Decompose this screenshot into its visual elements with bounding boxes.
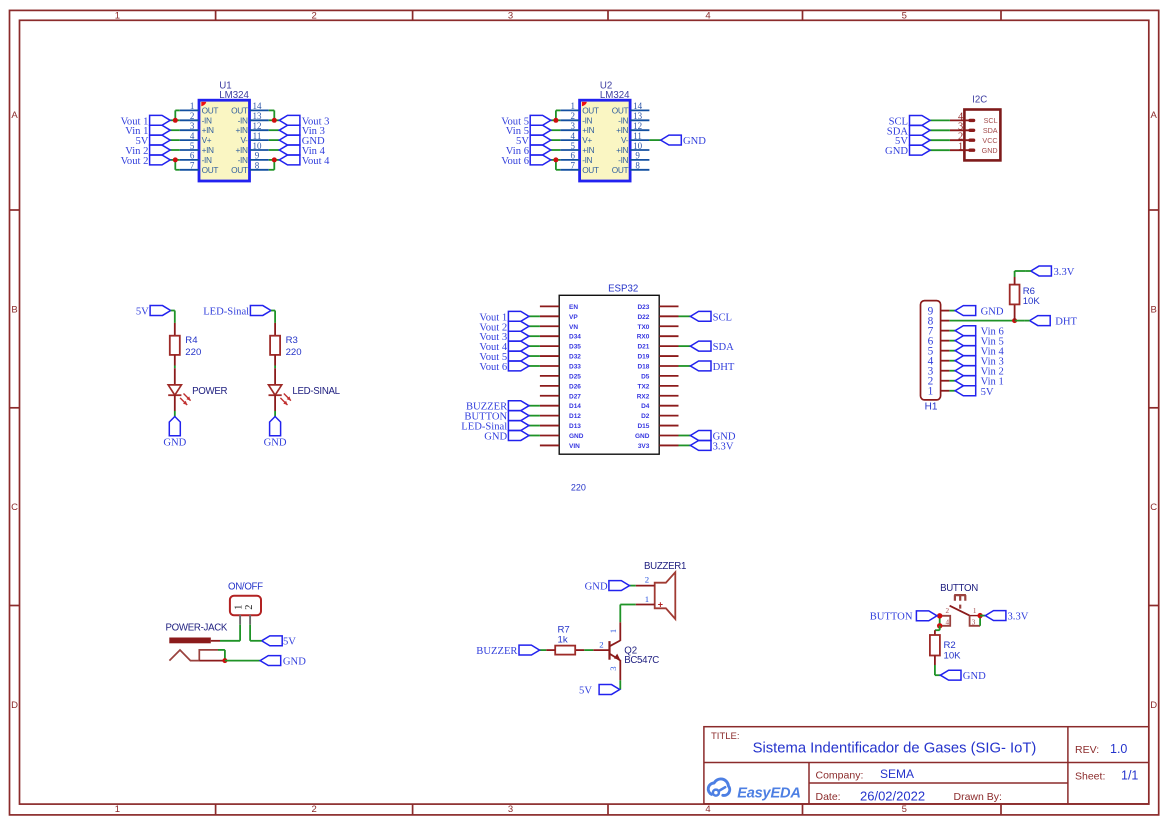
svg-text:4: 4 [705,804,710,815]
svg-text:SCL: SCL [984,116,998,125]
svg-text:RX2: RX2 [637,393,650,400]
svg-text:SCL: SCL [713,312,732,323]
svg-text:7: 7 [570,161,575,171]
svg-text:ESP32: ESP32 [608,283,638,294]
svg-text:14: 14 [253,101,263,111]
svg-text:GND: GND [885,146,908,157]
svg-text:-IN: -IN [202,115,212,125]
svg-text:10: 10 [253,141,263,151]
svg-text:V+: V+ [202,135,212,145]
svg-text:R4: R4 [185,335,198,346]
svg-text:1/1: 1/1 [1121,769,1138,783]
svg-text:LED-SINAL: LED-SINAL [292,386,340,397]
svg-text:2: 2 [599,640,603,650]
svg-text:-IN: -IN [202,155,212,165]
svg-text:TITLE:: TITLE: [711,731,740,742]
svg-text:D4: D4 [641,403,650,410]
svg-text:1: 1 [928,386,934,398]
svg-text:3V3: 3V3 [638,443,650,450]
svg-text:Date:: Date: [816,791,841,803]
svg-text:D21: D21 [637,344,649,351]
svg-text:D15: D15 [637,423,649,430]
svg-text:+IN: +IN [236,145,248,155]
svg-text:D5: D5 [641,373,650,380]
svg-text:ON/OFF: ON/OFF [228,582,263,593]
svg-text:VP: VP [569,314,578,321]
svg-text:+IN: +IN [582,125,594,135]
svg-text:1: 1 [645,594,649,604]
svg-text:GND: GND [283,657,306,668]
svg-text:A: A [11,110,18,121]
svg-text:D26: D26 [569,383,581,390]
svg-text:D12: D12 [569,413,581,420]
svg-text:D14: D14 [569,403,581,410]
svg-text:VIN: VIN [569,443,580,450]
svg-text:REV:: REV: [1075,744,1099,756]
svg-text:2: 2 [312,10,317,21]
svg-text:D33: D33 [569,363,581,370]
svg-text:DHT: DHT [1055,317,1077,328]
svg-text:+IN: +IN [202,145,214,155]
svg-text:Company:: Company: [816,770,864,782]
svg-text:Sheet:: Sheet: [1075,771,1105,783]
svg-text:POWER-JACK: POWER-JACK [166,623,228,634]
svg-text:26/02/2022: 26/02/2022 [860,789,925,804]
svg-text:-IN: -IN [582,155,592,165]
svg-text:+IN: +IN [616,125,628,135]
svg-text:D18: D18 [637,363,649,370]
svg-text:+IN: +IN [616,145,628,155]
svg-text:3.3V: 3.3V [1054,267,1075,278]
svg-text:VCC: VCC [982,136,997,145]
svg-text:OUT: OUT [231,165,248,175]
svg-text:8: 8 [255,161,260,171]
svg-text:GND: GND [264,438,287,449]
svg-text:D19: D19 [637,354,649,361]
svg-text:5: 5 [190,141,195,151]
svg-text:3: 3 [508,804,513,815]
svg-text:EN: EN [569,304,578,311]
svg-text:-IN: -IN [238,155,248,165]
svg-text:1.0: 1.0 [1110,742,1127,756]
svg-text:11: 11 [633,131,642,141]
svg-text:12: 12 [253,121,262,131]
svg-text:13: 13 [253,111,263,121]
svg-text:D2: D2 [641,413,650,420]
svg-text:220: 220 [286,347,302,358]
svg-text:D32: D32 [569,354,581,361]
svg-text:5V: 5V [136,307,149,318]
svg-text:3: 3 [570,121,575,131]
svg-text:1: 1 [115,804,120,815]
svg-text:5: 5 [570,141,575,151]
svg-text:D13: D13 [569,423,581,430]
svg-text:Vout 4: Vout 4 [302,156,330,167]
svg-text:12: 12 [633,121,642,131]
svg-text:+IN: +IN [582,145,594,155]
svg-text:GND: GND [982,146,998,155]
svg-text:Sistema Indentificador de Gase: Sistema Indentificador de Gases (SIG- Io… [753,740,1037,756]
svg-text:D: D [11,700,18,711]
svg-text:GND: GND [484,431,507,442]
svg-text:5V: 5V [579,686,592,697]
svg-text:D27: D27 [569,393,581,400]
svg-text:+IN: +IN [202,125,214,135]
svg-text:D34: D34 [569,334,581,341]
svg-text:220: 220 [185,347,201,358]
svg-text:1: 1 [958,141,963,152]
svg-text:1: 1 [608,629,618,633]
svg-text:EasyEDA: EasyEDA [737,785,801,801]
svg-text:10: 10 [633,141,643,151]
svg-text:SEMA: SEMA [880,767,914,781]
svg-text:TX2: TX2 [637,383,649,390]
svg-text:GND: GND [963,671,986,682]
svg-text:V-: V- [621,135,629,145]
svg-text:GND: GND [635,433,650,440]
svg-text:1k: 1k [558,635,568,646]
svg-text:GND: GND [569,433,584,440]
svg-text:1: 1 [570,101,575,111]
svg-text:10K: 10K [944,650,962,661]
svg-text:DHT: DHT [713,362,735,373]
svg-text:BC547C: BC547C [624,655,659,666]
svg-text:OUT: OUT [582,165,599,175]
svg-text:5V: 5V [283,637,296,648]
svg-text:220: 220 [571,482,586,492]
svg-text:5: 5 [902,804,907,815]
svg-text:D: D [1150,700,1157,711]
svg-text:V-: V- [240,135,248,145]
svg-text:Drawn By:: Drawn By: [954,791,1002,803]
svg-text:+: + [658,600,663,610]
svg-text:A: A [1151,110,1158,121]
svg-text:14: 14 [633,101,643,111]
svg-text:5V: 5V [981,387,994,398]
svg-text:C: C [11,502,18,513]
svg-text:C: C [1150,502,1157,513]
svg-text:OUT: OUT [612,165,629,175]
svg-text:OUT: OUT [612,105,629,115]
svg-text:R3: R3 [286,335,298,346]
svg-text:BUZZER: BUZZER [476,646,518,657]
svg-text:-IN: -IN [582,115,592,125]
svg-text:4: 4 [705,10,710,21]
svg-text:D35: D35 [569,344,581,351]
svg-text:3: 3 [608,666,618,671]
svg-text:POWER: POWER [192,386,227,397]
svg-text:3: 3 [508,10,513,21]
svg-text:13: 13 [633,111,643,121]
svg-text:2: 2 [645,574,649,584]
svg-text:GND: GND [683,136,706,147]
svg-text:1: 1 [190,101,195,111]
svg-text:4: 4 [946,619,950,627]
svg-text:+IN: +IN [236,125,248,135]
svg-text:VN: VN [569,324,578,331]
svg-text:11: 11 [253,131,262,141]
svg-text:GND: GND [981,307,1004,318]
svg-text:SDA: SDA [713,342,735,353]
svg-text:2: 2 [570,111,575,121]
svg-text:V+: V+ [582,135,592,145]
svg-text:I2C: I2C [972,94,987,105]
svg-text:3: 3 [190,121,195,131]
svg-text:10K: 10K [1023,296,1041,307]
svg-text:-IN: -IN [618,115,628,125]
svg-text:9: 9 [635,151,640,161]
svg-text:6: 6 [190,151,195,161]
svg-text:D22: D22 [637,314,649,321]
svg-text:6: 6 [570,151,575,161]
svg-text:2: 2 [946,607,950,615]
svg-text:BUTTON: BUTTON [940,583,978,594]
svg-text:5: 5 [902,10,907,21]
svg-text:1: 1 [115,10,120,21]
svg-text:OUT: OUT [582,105,599,115]
svg-text:7: 7 [190,161,195,171]
svg-text:-IN: -IN [238,115,248,125]
svg-text:D23: D23 [637,304,649,311]
svg-text:OUT: OUT [202,105,219,115]
svg-text:RX0: RX0 [637,334,650,341]
svg-text:BUTTON: BUTTON [870,611,913,622]
svg-text:OUT: OUT [231,105,248,115]
svg-text:3.3V: 3.3V [1008,611,1029,622]
svg-text:2: 2 [312,804,317,815]
svg-text:GND: GND [163,438,186,449]
svg-text:3.3V: 3.3V [713,441,734,452]
svg-text:-IN: -IN [618,155,628,165]
svg-text:BUZZER1: BUZZER1 [644,561,686,572]
svg-text:B: B [11,304,17,315]
svg-text:8: 8 [635,161,640,171]
svg-text:1: 1 [973,607,977,615]
svg-text:GND: GND [585,582,608,593]
svg-text:D25: D25 [569,373,581,380]
svg-text:LED-Sinal: LED-Sinal [203,307,249,318]
svg-text:Vout 2: Vout 2 [121,156,149,167]
svg-text:9: 9 [255,151,260,161]
svg-text:4: 4 [570,131,575,141]
svg-text:TX0: TX0 [637,324,649,331]
svg-text:2: 2 [244,605,255,610]
svg-text:H1: H1 [925,402,938,413]
svg-text:Vout 6: Vout 6 [479,362,507,373]
svg-text:4: 4 [190,131,195,141]
svg-text:3: 3 [972,619,976,627]
svg-text:Vout 6: Vout 6 [501,156,529,167]
svg-text:2: 2 [190,111,195,121]
svg-text:B: B [1151,304,1157,315]
svg-text:SDA: SDA [983,126,998,135]
svg-text:OUT: OUT [202,165,219,175]
